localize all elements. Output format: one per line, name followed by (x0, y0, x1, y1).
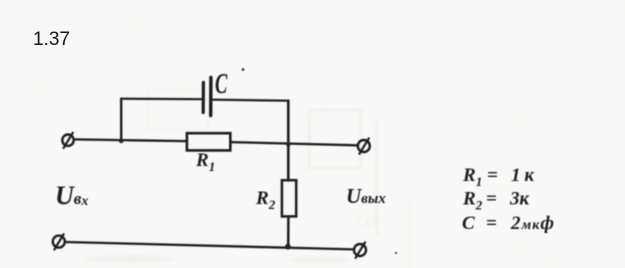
wire: R1 right lead to output terminal (231, 142, 357, 145)
faint bleed-through box artifact (85, 90, 410, 268)
resistor R1 body (187, 133, 230, 150)
output terminal top (358, 140, 370, 152)
wire: R2 bottom lead (287, 217, 290, 248)
wire: input mid wire from terminal to R1 (74, 139, 187, 141)
input terminal top (circle with slash) (62, 135, 73, 146)
resistor R2 body (282, 180, 296, 216)
stray ink speck (242, 68, 245, 71)
problem number 1.37 (33, 29, 70, 51)
junction node at R1 output / R2 top (286, 143, 290, 147)
junction node at capacitor branch / input wire (119, 139, 124, 144)
wire: bottom rail (66, 242, 354, 249)
wire: top branch left segment to capacitor (121, 98, 202, 101)
capacitor C left plate (202, 83, 205, 113)
junction node at R2 bottom / bottom rail (285, 244, 291, 250)
stray ink speck (395, 252, 397, 254)
wire: capacitor to top-right corner (213, 100, 289, 101)
capacitor C right plate (209, 78, 213, 116)
output terminal bottom (354, 244, 366, 256)
wire: left vertical of capacitor branch (120, 99, 122, 141)
wire: right vertical from top corner down to R2 top (287, 101, 290, 181)
paper grain (0, 0, 1, 1)
input terminal bottom (53, 236, 65, 248)
